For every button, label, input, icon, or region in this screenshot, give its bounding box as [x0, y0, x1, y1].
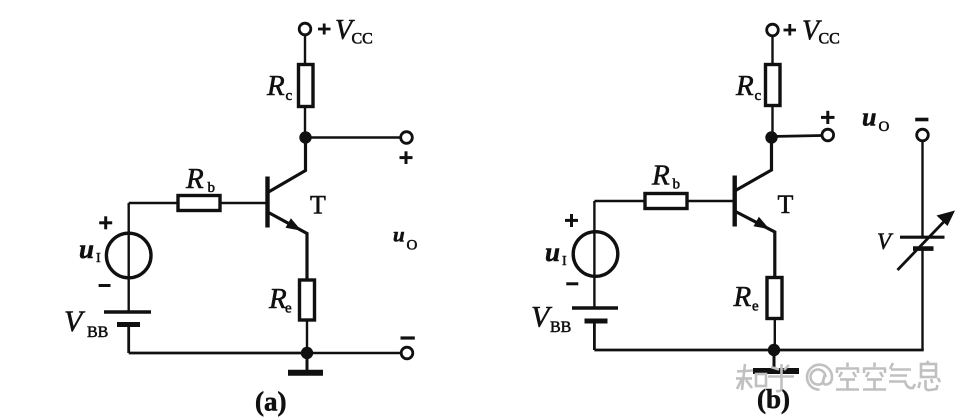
svg-text:u: u — [79, 234, 94, 264]
minus below uI (b) — [566, 282, 578, 285]
svg-text:I: I — [96, 251, 101, 266]
wire VCC to Rc (a) — [304, 35, 306, 65]
watermark char at — [807, 365, 832, 390]
terminal output minus (a) — [401, 347, 413, 359]
svg-text:e: e — [752, 299, 759, 315]
svg-text:e: e — [285, 301, 292, 317]
bottom node (b) — [768, 344, 780, 356]
svg-text:u: u — [545, 237, 560, 267]
wire Rc to node (a) — [304, 107, 306, 138]
emitter arrow (b) — [754, 217, 770, 230]
svg-text:I: I — [562, 254, 567, 269]
svg-text:u: u — [862, 103, 876, 132]
svg-text:O: O — [879, 119, 890, 135]
wire node to output terminal (a) — [306, 136, 401, 138]
watermark char kong1 — [836, 363, 859, 390]
resistor Rc (a) — [299, 65, 314, 107]
svg-text:R: R — [266, 70, 285, 102]
terminal +VCC (a) — [299, 23, 311, 35]
watermark char hu — [768, 364, 794, 391]
label +VCC (b) — [784, 24, 797, 36]
wire Rc to node (b) — [771, 106, 773, 138]
wire Re to bottom node (a) — [306, 320, 308, 353]
wire minus terminal to V source (b) — [921, 141, 923, 236]
terminal output plus (a) — [401, 132, 413, 144]
V source short plate (b) — [913, 246, 934, 251]
svg-text:u: u — [393, 223, 405, 247]
wire battery to rail (b) — [593, 321, 596, 350]
base wire left segment (b) — [594, 200, 645, 202]
wire Re to bottom node (b) — [774, 319, 776, 351]
collector wire (a) — [269, 138, 306, 193]
wire battery to rail (a) — [127, 325, 130, 354]
collector wire (b) — [736, 138, 772, 191]
svg-text:BB: BB — [87, 324, 108, 341]
svg-text:R: R — [651, 160, 670, 192]
bottom node (a) — [301, 347, 313, 359]
arrow through V source (b) — [898, 220, 947, 271]
emitter arrow (a) — [286, 218, 302, 231]
resistor Rb (a) — [178, 196, 220, 211]
svg-text:(b): (b) — [757, 384, 790, 414]
V source long plate (b) — [900, 236, 945, 239]
resistor Rc (b) — [766, 65, 781, 106]
base wire right segment (a) — [220, 202, 266, 204]
svg-text:c: c — [286, 88, 293, 104]
node collector (b) — [765, 131, 777, 143]
emitter wire (a) — [269, 213, 308, 281]
svg-text:CC: CC — [819, 31, 840, 48]
source uI circle (a) — [106, 233, 151, 278]
label +VCC (a) — [318, 24, 331, 35]
plus sign below output terminal (a) — [400, 151, 413, 164]
resistor Rb (b) — [645, 194, 687, 209]
ground (a) — [306, 353, 309, 370]
battery VBB short plate (b) — [585, 319, 608, 324]
watermark char kong2 — [863, 363, 886, 390]
left branch vertical wire (b) — [593, 201, 595, 308]
svg-text:b: b — [673, 177, 681, 193]
svg-text:BB: BB — [550, 319, 571, 336]
plus sign above terminal (b) — [821, 111, 835, 124]
terminal output plus (b) — [822, 129, 834, 141]
emitter wire (b) — [736, 212, 775, 278]
svg-text:c: c — [755, 88, 762, 104]
watermark char qi — [889, 363, 915, 388]
svg-text:T: T — [778, 190, 794, 219]
base wire left segment (a) — [129, 202, 178, 204]
minus below uI (a) — [99, 284, 111, 287]
transistor T base bar (b) — [733, 176, 737, 227]
bottom rail (b) — [594, 349, 923, 352]
ground (b) — [773, 350, 776, 367]
resistor Re (b) — [767, 278, 782, 319]
wire V source to rail (b) — [921, 249, 923, 350]
svg-text:R: R — [185, 163, 204, 195]
bottom rail left (a) — [129, 352, 307, 355]
battery VBB long plate (a) — [104, 310, 151, 313]
svg-text:T: T — [310, 191, 326, 220]
svg-text:b: b — [208, 180, 216, 196]
left branch vertical wire (a) — [127, 203, 129, 311]
source uI circle (b) — [573, 232, 618, 277]
plus above uI (b) — [565, 214, 578, 227]
plus above uI (a) — [99, 216, 112, 229]
svg-text:R: R — [735, 70, 754, 102]
node collector (a) — [299, 131, 311, 143]
svg-text:V: V — [64, 305, 86, 338]
battery VBB short plate (a) — [117, 322, 140, 327]
svg-text:CC: CC — [352, 31, 373, 48]
svg-text:O: O — [407, 238, 418, 254]
svg-text:R: R — [733, 281, 752, 313]
battery VBB long plate (b) — [572, 306, 618, 309]
transistor T base bar (a) — [265, 177, 269, 228]
resistor Re (a) — [300, 280, 315, 320]
wire VCC to Rc (b) — [771, 36, 773, 65]
watermark char xi — [919, 361, 941, 390]
svg-text:V: V — [877, 229, 894, 254]
terminal +VCC (b) — [767, 24, 779, 36]
minus overbar above terminal (a) — [401, 336, 415, 339]
watermark char zhi — [736, 364, 766, 390]
base wire right segment (b) — [687, 200, 733, 202]
minus overbar (b) — [915, 118, 928, 122]
svg-text:(a): (a) — [255, 387, 286, 417]
wire node to plus terminal (b) — [772, 136, 823, 137]
bottom rail right to output (a) — [307, 352, 401, 354]
terminal output minus (b) — [917, 129, 929, 141]
